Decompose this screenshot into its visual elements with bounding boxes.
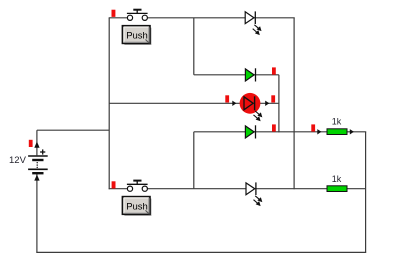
wire row5 right segment [147, 188, 365, 190]
push switch SW1 contact circles [127, 15, 132, 20]
wire battery horizontal [37, 129, 109, 131]
wire row4 horizontal [194, 131, 366, 133]
LED D3 lit red [240, 93, 262, 121]
wire row2 horizontal [194, 74, 279, 76]
current arrow battery upper [34, 142, 39, 148]
red indicator top row [112, 10, 116, 17]
wire top row left segment [109, 17, 128, 19]
battery B1 12V [28, 149, 48, 173]
wire far-right vertical [365, 132, 367, 253]
wire row3 horizontal [109, 102, 279, 104]
wire battery top vertical [36, 130, 38, 155]
svg-text:1k: 1k [332, 174, 342, 184]
red indicator battery wire [29, 140, 33, 147]
svg-text:Push: Push [126, 30, 148, 41]
wire bottom row [36, 251, 366, 253]
current arrow row4 left [317, 129, 321, 134]
push switch SW2 plunger [127, 181, 148, 185]
svg-text:12V: 12V [9, 155, 27, 166]
diode D4 conducting [245, 125, 255, 138]
wire mid vertical lower [193, 132, 195, 189]
push button SW2 box [122, 197, 151, 216]
wire left vertical [108, 18, 110, 189]
current arrow row3 left [232, 101, 236, 106]
resistor R2 1k [327, 186, 347, 192]
red indicator row5 [112, 181, 116, 188]
resistor R1 1k [327, 129, 347, 135]
red indicator row4 left [272, 124, 276, 131]
wire mid vertical upper [193, 18, 195, 75]
svg-text:1k: 1k [332, 117, 342, 127]
wire row5 left segment [109, 188, 128, 190]
red indicator row2 [272, 67, 276, 74]
wire vertical v2 [293, 18, 295, 190]
current arrow battery lower [34, 175, 39, 181]
push switch SW1 plunger [127, 10, 148, 14]
LED D1 unlit [245, 11, 261, 34]
wire battery bottom vertical [36, 174, 38, 252]
LED D5 unlit [246, 182, 262, 205]
svg-text:Push: Push [126, 201, 148, 212]
push switch SW2 contact circles [127, 186, 132, 191]
red indicator row3 right [271, 95, 275, 102]
red indicator row4 right [311, 124, 315, 131]
red indicator row3 left [225, 95, 229, 102]
diode D2 conducting [245, 68, 255, 81]
push button SW1 box [122, 26, 151, 45]
current arrow row4 right [350, 129, 354, 134]
current arrow row3 right [265, 101, 269, 106]
wire top row right segment [147, 17, 294, 19]
wire vertical v1 [278, 75, 280, 133]
